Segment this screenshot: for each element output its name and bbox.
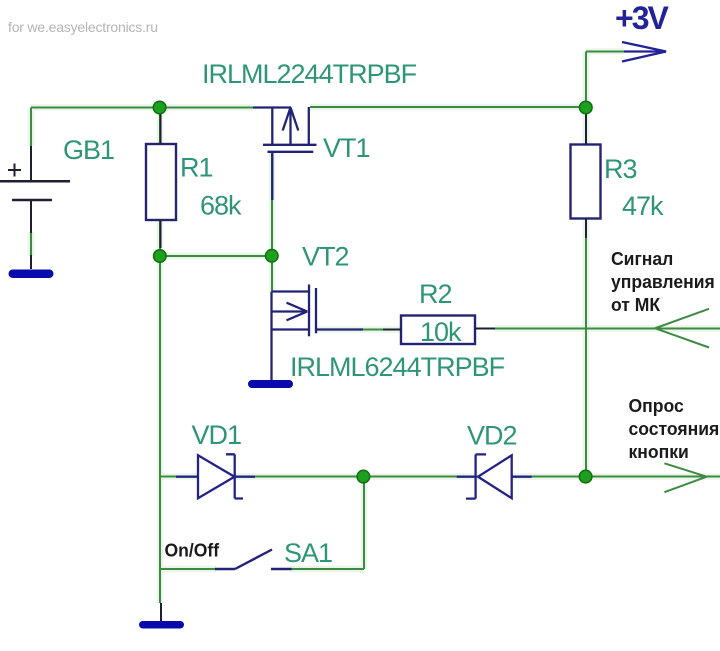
svg-text:от МК: от МК (611, 295, 661, 316)
svg-text:+3V: +3V (615, 0, 669, 36)
svg-text:IRLML6244TRPBF: IRLML6244TRPBF (290, 352, 505, 382)
svg-text:47k: 47k (622, 191, 664, 221)
svg-text:Сигнал: Сигнал (611, 249, 673, 270)
svg-text:10k: 10k (420, 317, 462, 347)
svg-text:68k: 68k (200, 191, 242, 221)
svg-text:VT1: VT1 (323, 133, 370, 163)
svg-text:IRLML2244TRPBF: IRLML2244TRPBF (202, 59, 417, 89)
svg-text:VT2: VT2 (302, 242, 349, 272)
svg-text:состояния: состояния (629, 419, 720, 440)
svg-text:управления: управления (611, 272, 715, 293)
svg-text:On/Off: On/Off (165, 540, 221, 561)
svg-text:VD2: VD2 (467, 421, 517, 451)
svg-text:R3: R3 (604, 154, 637, 184)
svg-text:SA1: SA1 (284, 538, 332, 568)
svg-text:GB1: GB1 (63, 135, 114, 165)
svg-text:VD1: VD1 (192, 420, 242, 450)
svg-text:for we.easyelectronics.ru: for we.easyelectronics.ru (8, 19, 158, 35)
svg-text:Опрос: Опрос (629, 396, 684, 417)
svg-text:R2: R2 (419, 279, 452, 309)
svg-text:R1: R1 (180, 153, 213, 183)
svg-text:кнопки: кнопки (629, 442, 689, 463)
